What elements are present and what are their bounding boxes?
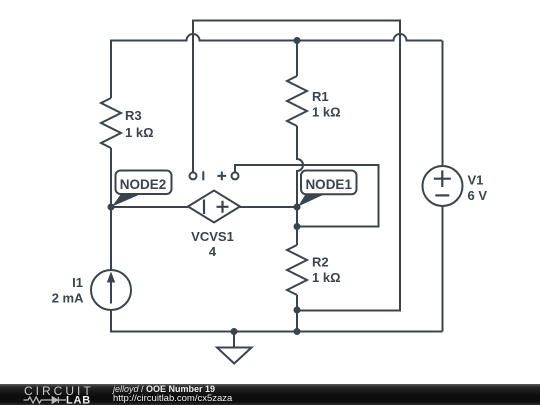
- label: minus mark at control input: [202, 171, 204, 180]
- resistor R3: [101, 98, 121, 148]
- junction node at (297,331): [294, 328, 301, 335]
- footer banner: [0, 384, 540, 405]
- junction node ground at (234,331): [231, 328, 238, 335]
- svg-text:LAB: LAB: [66, 395, 91, 405]
- svg-text:V1: V1: [468, 173, 484, 188]
- node label NODE1 flag: [298, 171, 357, 207]
- resistor R1: [287, 76, 307, 126]
- svg-text:4: 4: [209, 244, 217, 259]
- junction node control loop at (297,226): [294, 223, 301, 230]
- wire: V1 bottom lead to bottom rail: [442, 207, 444, 332]
- vcvs VCVS1 plus mark inside diamond: [217, 201, 229, 213]
- svg-text:R1: R1: [312, 89, 329, 104]
- terminal: VCVS minus control input circle: [190, 172, 197, 179]
- voltage source V1: [423, 166, 463, 206]
- wire: top horizontal rail y=40 with crossover hops at x=193 and x=400: [111, 34, 442, 41]
- svg-text:NODE2: NODE2: [120, 177, 167, 192]
- wire: VCVS left output lead to NODE2: [111, 206, 188, 208]
- svg-text:NODE1: NODE1: [305, 177, 352, 192]
- current source I1: [91, 270, 131, 310]
- wire: I1 bottom to bottom rail: [111, 311, 443, 332]
- terminal: VCVS plus control input circle: [232, 172, 239, 179]
- svg-text:1 kΩ: 1 kΩ: [312, 105, 341, 120]
- wire: R3 bottom to NODE2 to I1 top: [110, 148, 112, 271]
- svg-text:VCVS1: VCVS1: [191, 229, 234, 244]
- node label NODE2 flag: [112, 171, 172, 207]
- wire: VCVS right output lead to NODE1: [240, 206, 297, 208]
- wire: R1 bottom down with hop over control wire to NODE1: [297, 126, 303, 245]
- wire: V1 top lead: [442, 41, 444, 167]
- wire: left branch top lead into R3: [110, 41, 112, 99]
- svg-text:2 mA: 2 mA: [52, 291, 84, 306]
- junction node NODE1 at (297,207): [294, 204, 301, 211]
- label: plus mark at control input: [217, 172, 226, 181]
- junction node at R1 top on rail y=40: [294, 37, 301, 44]
- svg-text:I1: I1: [72, 275, 83, 290]
- svg-text:R3: R3: [125, 108, 142, 123]
- CircuitLab logo: [0, 384, 110, 405]
- svg-text:1 kΩ: 1 kΩ: [312, 270, 341, 285]
- wire: VCVS plus control terminal loop to NODE1: [235, 165, 379, 227]
- svg-text:1 kΩ: 1 kΩ: [125, 125, 154, 140]
- junction node R2 bottom at (297,310): [294, 307, 301, 314]
- svg-text:R2: R2: [312, 255, 329, 270]
- wire: net from VCVS minus control terminal up over top to R2 bottom: [193, 21, 400, 311]
- vcvs VCVS1 diamond body: [188, 191, 240, 223]
- wire: middle branch top lead into R1: [296, 41, 298, 77]
- svg-text:6 V: 6 V: [468, 188, 488, 203]
- ground symbol: [217, 332, 252, 364]
- wire: R2 bottom to bottom rail: [296, 295, 298, 332]
- vcvs VCVS1 minus mark inside diamond: [203, 200, 205, 215]
- resistor R2: [287, 245, 307, 295]
- junction node NODE2 at (111,207): [108, 204, 115, 211]
